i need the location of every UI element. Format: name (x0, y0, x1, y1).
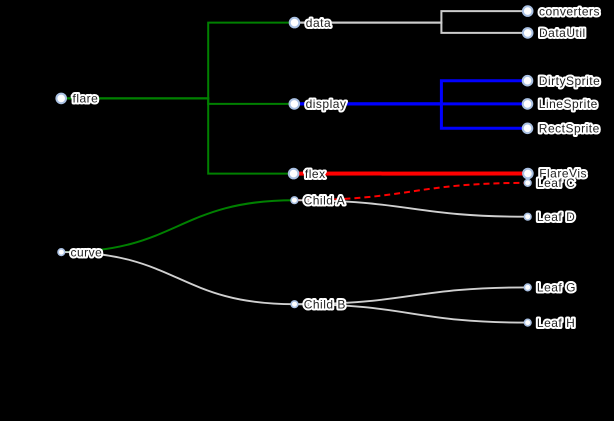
wire display-RectSprite (blue polyline) (294, 104, 527, 128)
wire ChildA-LeafD (gray bezier) (294, 200, 527, 217)
svg-text:data: data (306, 16, 331, 30)
svg-text:display: display (306, 97, 347, 111)
wire ChildA-LeafC (red dashed bezier) (294, 183, 527, 200)
wire flare-flex (green polyline) (61, 98, 293, 173)
node RectSprite (523, 124, 533, 134)
node DirtySprite (523, 76, 533, 86)
svg-text:converters: converters (539, 4, 600, 18)
svg-text:flex: flex (305, 167, 326, 181)
node flex (289, 169, 299, 179)
wire ChildB-LeafH (gray bezier) (295, 304, 528, 322)
node Leaf G (524, 284, 531, 291)
svg-text:Child A: Child A (304, 193, 346, 207)
svg-text:DataUtil: DataUtil (539, 26, 586, 40)
svg-text:Leaf H: Leaf H (537, 316, 575, 330)
svg-text:Child B: Child B (304, 297, 346, 311)
svg-text:Leaf D: Leaf D (537, 210, 575, 224)
svg-text:Leaf G: Leaf G (537, 281, 576, 295)
node DataUtil (523, 28, 533, 38)
node Child A (291, 197, 298, 204)
svg-text:Leaf C: Leaf C (537, 176, 575, 190)
wire curve-ChildA (green bezier) (61, 200, 294, 252)
node curve (58, 249, 65, 256)
wire data-DataUtil (gray polyline) (295, 23, 528, 33)
node Leaf C (524, 180, 531, 187)
svg-text:DirtySprite: DirtySprite (539, 74, 601, 88)
wire curve-ChildB (gray bezier) (61, 252, 294, 304)
wire data-converters (gray polyline) (295, 11, 528, 23)
wire flex-FlareVis (red line) (294, 172, 528, 176)
wire flare-data (green polyline) (61, 23, 294, 99)
svg-text:LineSprite: LineSprite (539, 97, 598, 111)
node Child B (291, 301, 298, 308)
node Leaf H (524, 319, 531, 326)
wire display-DirtySprite (blue polyline) (294, 81, 527, 104)
wire display-LineSprite (blue polyline) (294, 102, 527, 105)
svg-text:RectSprite: RectSprite (539, 122, 600, 136)
svg-text:curve: curve (71, 245, 103, 259)
wire flare-display (green polyline) (61, 98, 294, 104)
node data (290, 18, 300, 28)
node converters (523, 6, 533, 16)
wire ChildB-LeafG (gray bezier) (295, 287, 528, 304)
node display (290, 99, 300, 109)
node flare (56, 94, 66, 104)
node FlareVis (523, 169, 533, 179)
node Leaf D (524, 213, 531, 220)
svg-text:flare: flare (73, 92, 99, 106)
node LineSprite (523, 99, 533, 109)
